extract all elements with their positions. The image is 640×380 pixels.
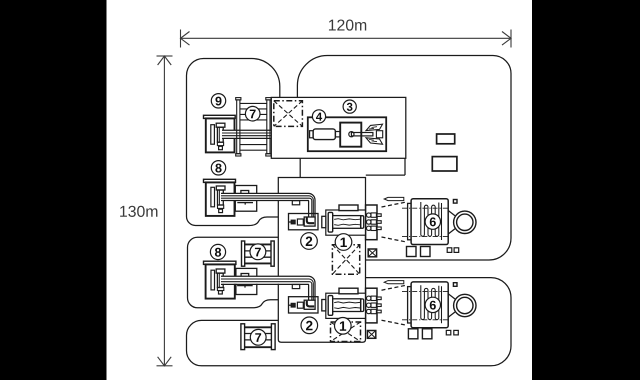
pipe run 8a to no.2 unit (turns down) xyxy=(221,193,306,201)
pipe run 8b to no.2 unit (turns down) xyxy=(221,276,306,284)
engine left flange xyxy=(328,212,333,232)
small fitting on pipes 8b xyxy=(292,285,299,289)
small store rooms right of test cell xyxy=(437,134,455,144)
rack 7a (top) xyxy=(236,98,271,156)
label circle 7c xyxy=(250,329,266,345)
engine right cap xyxy=(361,216,364,229)
pointer bar above cone xyxy=(384,197,404,200)
no.6 dyno box xyxy=(411,199,448,245)
machine 8b side table xyxy=(236,268,257,294)
dimension texts xyxy=(329,19,366,30)
pipe block xyxy=(304,217,315,226)
dyno left plate xyxy=(408,203,412,239)
pipe run from machine 9 to room xyxy=(222,130,271,139)
building outline: middle-left lobe xyxy=(188,237,279,307)
label circle 1 lower xyxy=(335,318,352,335)
engine body xyxy=(333,216,361,229)
ring (torus) xyxy=(454,211,476,233)
pallet squares below upper assembly xyxy=(407,247,417,257)
label circle 6 lower xyxy=(425,297,440,312)
label circle 4 xyxy=(312,110,325,123)
assembly unit 1 (upper): no.2 injector + no.1 engine + coupling + no.6 dyno + ring xyxy=(289,197,476,244)
crossed pallet box upper xyxy=(332,245,359,275)
dyno coil serpentine xyxy=(421,202,442,240)
label circle 6 upper xyxy=(425,214,440,229)
label circle 1 upper xyxy=(335,234,352,251)
pallet squares below lower assembly xyxy=(408,329,418,339)
machine 8a xyxy=(204,179,236,216)
test cell inner room (machine 4 enclosure) xyxy=(308,117,386,151)
label circle 8a xyxy=(211,161,225,175)
label circle 2 lower xyxy=(301,317,318,334)
crossed pallet box lower xyxy=(331,322,361,342)
machine 8a side table xyxy=(235,186,256,212)
machine 4: robot end effector xyxy=(366,124,383,144)
building outline: top-right lobe xyxy=(297,56,511,261)
central strip building xyxy=(278,178,365,343)
assembly unit 2 (lower copy) xyxy=(289,281,476,328)
small x-box lower xyxy=(367,331,375,339)
rack 7c (bottom) xyxy=(241,324,275,350)
label circle 7a xyxy=(245,106,260,121)
small x-box upper xyxy=(368,249,376,257)
machine 4: spindle box xyxy=(340,123,361,147)
no.2 unit box xyxy=(289,214,319,230)
label circle 9 xyxy=(211,94,225,108)
label circle 2 upper xyxy=(301,233,318,250)
jog wall between room and strip xyxy=(299,158,301,177)
label circle 7b xyxy=(250,244,266,260)
small switch box xyxy=(453,200,457,204)
shaft cone (dashed) xyxy=(382,202,408,207)
machine 4: cylinder xyxy=(310,131,314,138)
notch walls joining strip to room right edge xyxy=(404,158,406,175)
label circle 8b xyxy=(210,244,225,259)
white plan background xyxy=(107,0,533,380)
room 3/4 (test cell) xyxy=(271,97,406,158)
dyno centerlines xyxy=(402,207,448,209)
coupling plate xyxy=(366,205,377,240)
crossed box (dock) in room xyxy=(274,101,303,127)
links to ring xyxy=(448,211,455,216)
label circle 3 xyxy=(343,100,356,113)
dimension 120m top xyxy=(181,30,512,48)
building outline: bottom band (bottom-left + bottom-right lobes) xyxy=(187,278,512,366)
nozzle xyxy=(297,219,303,225)
rack 7b (middle) xyxy=(242,241,275,266)
engine top box xyxy=(339,205,358,211)
label digits (circled numbers and dimension texts) xyxy=(215,97,436,342)
machine 8b xyxy=(204,261,236,298)
machine 9 (top-left) xyxy=(204,115,236,152)
building outline: top-left lobe xyxy=(187,59,280,226)
dimension 130m left xyxy=(157,56,173,366)
small fitting on pipes 8a xyxy=(292,201,299,205)
no.1 engine outer bed xyxy=(326,210,366,235)
engine left lug xyxy=(322,216,326,227)
